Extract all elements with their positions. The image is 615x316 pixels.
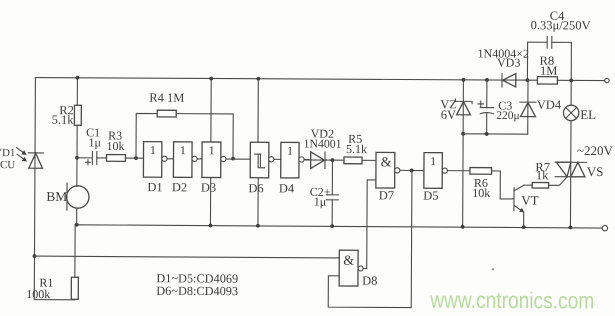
svg-text:D5: D5 <box>423 189 438 203</box>
resistor R6 <box>470 168 492 175</box>
wire D6 to D4 <box>274 158 281 160</box>
node bottom rail BM <box>75 223 79 227</box>
wire rail to EL <box>570 80 572 105</box>
inverter D4 <box>281 142 304 178</box>
nand gate D7 <box>376 152 400 188</box>
node bottom rail C2 <box>330 224 334 228</box>
svg-text:1μ: 1μ <box>314 195 327 209</box>
node top rail R2 <box>76 76 80 80</box>
node R4 right junction <box>231 157 235 161</box>
terminal top right <box>605 78 609 82</box>
wire D4 to VD2 <box>304 158 309 160</box>
node bottom rail D3 <box>209 224 213 228</box>
svg-text:1μ: 1μ <box>89 135 102 149</box>
wire D6 power top <box>257 79 259 142</box>
svg-text:D8: D8 <box>362 274 377 288</box>
resistor R4 <box>157 110 176 117</box>
svg-text:D3: D3 <box>201 180 216 194</box>
svg-text:1: 1 <box>430 154 436 168</box>
wire D8 upper input line <box>34 256 339 258</box>
wire R4 feedback loop right <box>176 114 233 159</box>
wire D2 to D3 <box>197 158 202 160</box>
wire top rail between VD3 and R8 <box>516 79 538 81</box>
svg-text:EL: EL <box>580 107 596 122</box>
svg-text:1: 1 <box>209 143 215 157</box>
wire R6 to VT base <box>491 171 513 199</box>
svg-text:D1: D1 <box>147 180 162 194</box>
capacitor C3 <box>478 80 494 134</box>
terminal bottom right <box>602 225 607 230</box>
node top rail EL R8 C4 <box>569 78 573 82</box>
inverter D2 <box>173 142 197 178</box>
node bottom rail VT emitter <box>522 225 526 229</box>
svg-text:1: 1 <box>180 143 186 157</box>
wire D7 lower input from D8 output <box>363 180 376 269</box>
node VZ bottom junction <box>461 132 465 136</box>
svg-text:1: 1 <box>150 143 156 157</box>
wire top rail right segment <box>557 79 604 81</box>
wire R2 branch top <box>76 78 78 105</box>
node C3 bottom junction <box>485 132 489 136</box>
wire left column from rail to VD1 <box>34 78 36 169</box>
svg-text:1k: 1k <box>536 168 549 182</box>
wire D7 output to D5 <box>400 169 424 171</box>
transistor VT <box>514 185 525 227</box>
svg-text:D4: D4 <box>279 181 295 195</box>
svg-text:100k: 100k <box>26 287 50 301</box>
capacitor C1 <box>85 151 96 164</box>
lamp EL <box>563 105 578 120</box>
wire D5 output to R6 <box>447 170 469 172</box>
wire R1 top to bottom rail <box>74 225 76 277</box>
wire VD2 to R5 <box>325 159 344 161</box>
wire D1 to D2 <box>167 158 173 160</box>
resistor R2 <box>74 105 81 125</box>
wire left column below VD1 down to bottom corner <box>34 168 75 300</box>
zener diode VZ <box>455 80 472 134</box>
svg-text:VD3: VD3 <box>497 55 520 69</box>
wire triac to bottom rail <box>569 121 572 228</box>
wire BM bottom to rail <box>76 208 78 225</box>
node R2 C1 BM junction <box>75 156 79 160</box>
node VD2 R5 C2 junction <box>331 158 335 162</box>
svg-text:1M: 1M <box>540 64 557 78</box>
capacitor C2 <box>326 160 338 226</box>
wire C1 to R3 <box>97 157 107 159</box>
diode VD3 <box>502 74 516 87</box>
wire VT collector to R7 <box>524 184 532 186</box>
node top rail D6 <box>256 77 260 81</box>
wire bottom rail <box>77 225 603 228</box>
node top rail VZ <box>462 78 466 82</box>
triac VS <box>555 162 586 177</box>
svg-text:D6: D6 <box>248 181 263 195</box>
svg-text:~220V: ~220V <box>577 143 614 158</box>
wire D3 power top <box>210 78 212 141</box>
svg-text:D7: D7 <box>379 188 394 202</box>
svg-text:10k: 10k <box>107 139 125 153</box>
svg-text:2CU: 2CU <box>0 159 15 171</box>
capacitor C4 <box>527 36 571 80</box>
node top rail D3 <box>209 77 213 81</box>
wire R2 bottom to node <box>76 125 78 157</box>
wire R7 to triac gate <box>549 177 567 186</box>
node bottom rail triac <box>569 225 573 229</box>
wire R5 to D7 <box>362 159 376 161</box>
svg-text:220μ: 220μ <box>496 110 519 122</box>
microphone BM <box>67 183 90 210</box>
svg-text:5.1k: 5.1k <box>346 142 367 156</box>
wire BM top <box>76 158 78 187</box>
nand gate D8 <box>339 250 363 286</box>
speck artifact <box>492 268 494 270</box>
svg-text:&: & <box>381 155 392 170</box>
node R4 left junction <box>134 156 138 160</box>
node bottom rail D6 <box>256 224 260 228</box>
wire D8 lower input feedback loop <box>328 170 412 308</box>
svg-text:VD1: VD1 <box>0 147 15 159</box>
diode VD2 <box>304 152 325 169</box>
inverter D5 <box>424 153 448 189</box>
inverter D3 <box>202 142 226 178</box>
wire R3 to D1 input <box>125 157 143 159</box>
wire node to C1 <box>77 157 92 159</box>
svg-text:5.1k: 5.1k <box>52 113 75 127</box>
svg-text:VS: VS <box>587 164 604 179</box>
resistor R3 <box>106 155 125 162</box>
wire VZ C3 VD4 bottom junction <box>463 133 527 135</box>
wire D3 to D6 <box>226 158 250 160</box>
svg-text:D6~D8:CD4093: D6~D8:CD4093 <box>156 284 238 298</box>
svg-text:&: & <box>343 254 354 269</box>
wire top rail left segment <box>35 78 502 80</box>
svg-text:1: 1 <box>287 144 293 158</box>
schmitt trigger D6 <box>250 142 274 178</box>
wire R4 feedback loop left <box>136 113 157 158</box>
photodiode VD1 <box>16 148 43 169</box>
resistor R5 <box>344 157 362 164</box>
diode VD4 <box>520 80 536 134</box>
svg-text:6V: 6V <box>441 108 456 122</box>
svg-text:VT: VT <box>521 193 538 208</box>
inverter D1 <box>143 142 167 178</box>
wire D6 power bottom <box>257 178 259 226</box>
resistor R1 <box>71 277 78 299</box>
svg-text:1N4001: 1N4001 <box>304 136 342 150</box>
svg-text:10k: 10k <box>472 186 490 200</box>
node D7 output feedback junction <box>410 169 414 173</box>
wire VZ junction to bottom rail <box>462 134 464 227</box>
svg-text:BM: BM <box>46 189 67 204</box>
resistor R8 <box>537 77 557 85</box>
svg-text:VD4: VD4 <box>537 98 562 112</box>
node bottom rail VZ <box>461 225 465 229</box>
svg-text:0.33μ/250V: 0.33μ/250V <box>531 18 591 32</box>
wire D3 power bottom <box>209 177 211 225</box>
svg-text:R4 1M: R4 1M <box>149 91 184 105</box>
svg-text:D2: D2 <box>172 180 187 194</box>
svg-text:www.cntronics.com: www.cntronics.com <box>429 287 594 314</box>
node top rail C3 <box>485 78 489 82</box>
node top rail VD3 out <box>526 78 530 82</box>
resistor R7 <box>532 182 549 188</box>
node junction left column to D8 line <box>33 254 37 258</box>
